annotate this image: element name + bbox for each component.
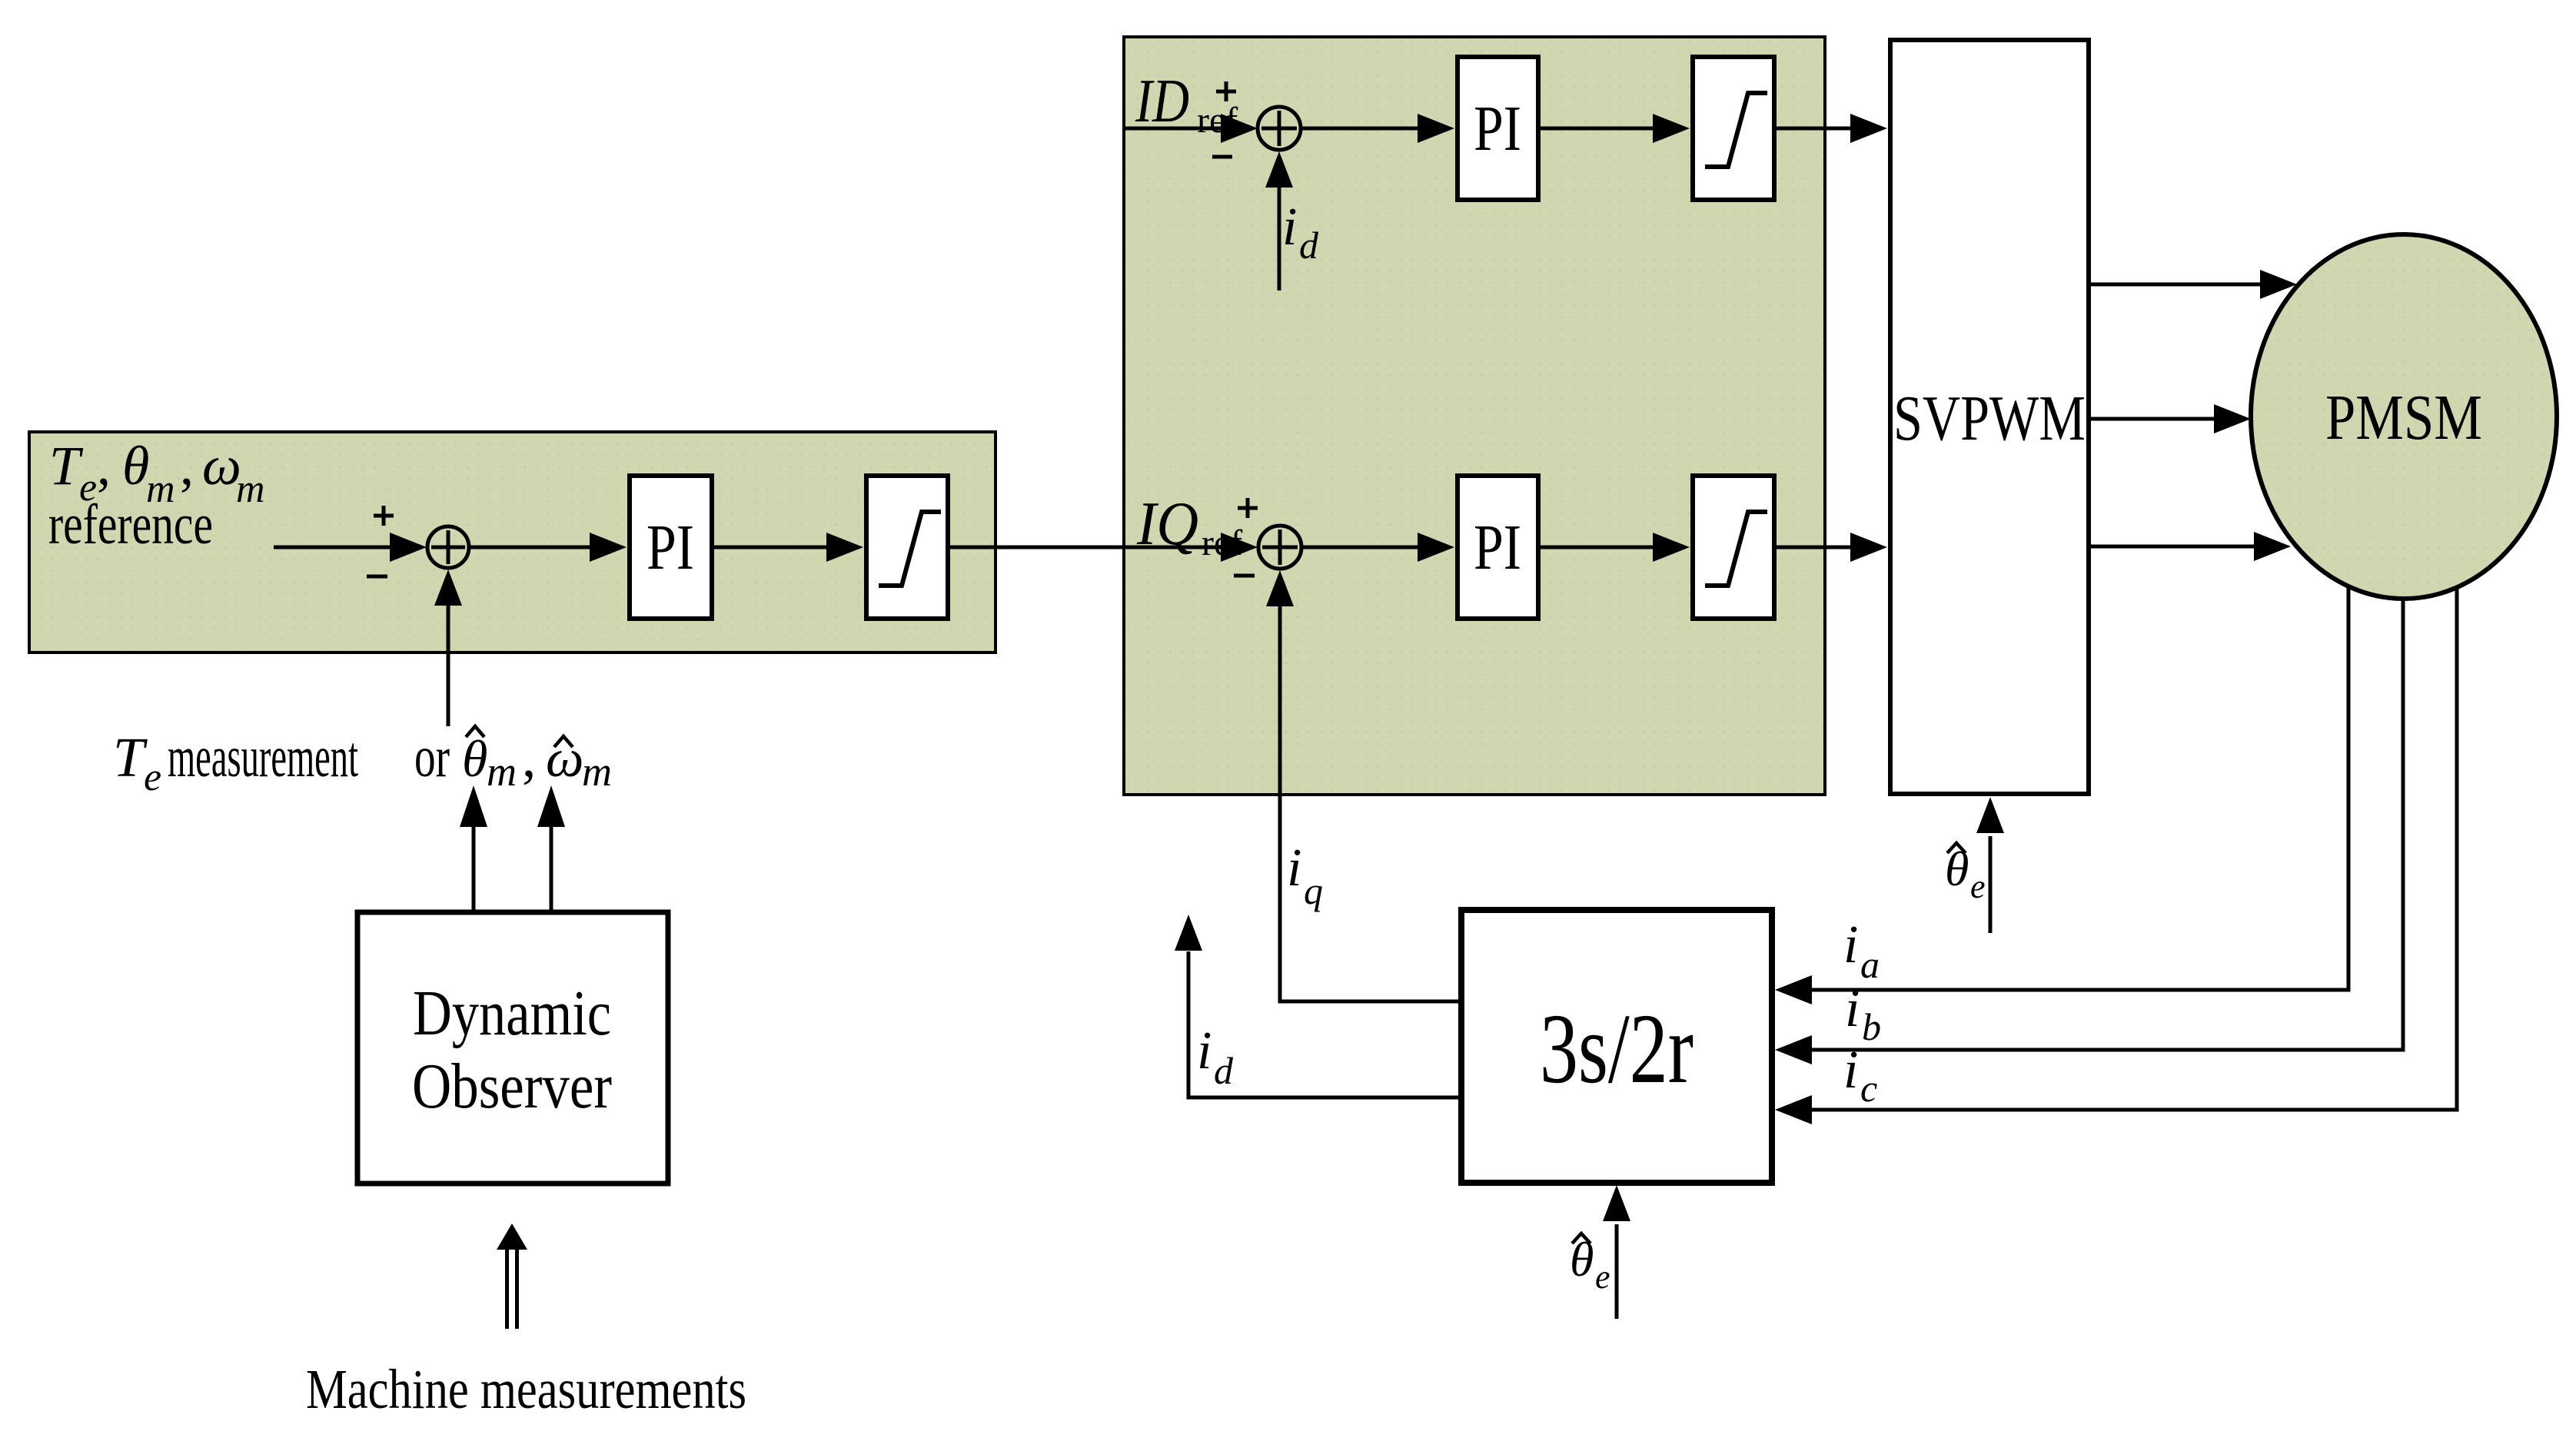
plus sign at S1	[374, 506, 394, 526]
shaded region: current loops	[1124, 37, 1825, 795]
saturation limiter SAT1	[866, 476, 948, 619]
summing junction S1	[427, 526, 469, 568]
wire ia from PMSM to 3s/2r	[1775, 588, 2348, 1004]
label Te, theta_m, omega_m	[49, 435, 265, 511]
minus sign at S3	[1234, 574, 1255, 578]
wire SAT2 to SVPWM	[1774, 114, 1887, 143]
svg-text:measurement: measurement	[168, 725, 358, 789]
PMSM machine	[2251, 234, 2557, 599]
svg-text:i: i	[1287, 838, 1301, 898]
label iq	[1287, 838, 1323, 912]
svg-text:e: e	[1970, 868, 1986, 905]
wire id from 3s/2r (output)	[1175, 915, 1461, 1097]
SVPWM block	[1890, 40, 2089, 794]
svg-text:T: T	[113, 726, 148, 789]
minus sign at S2	[1212, 155, 1232, 159]
svg-text:PI: PI	[646, 512, 694, 583]
wire SVPWM to PMSM (top)	[2089, 270, 2297, 299]
svg-text:θ: θ	[462, 729, 487, 788]
summing junction S2	[1258, 107, 1301, 150]
wire S3 to PI3	[1301, 533, 1454, 562]
wire PI3 to SAT3	[1538, 533, 1690, 562]
wire theta_e into 3s/2r	[1603, 1185, 1630, 1319]
label theta_e (3s/2r)	[1570, 1232, 1610, 1296]
svg-text:m: m	[236, 467, 265, 511]
wire IDref into S2	[1124, 114, 1258, 143]
plus sign at S2	[1216, 81, 1236, 101]
wire ic from PMSM to 3s/2r	[1775, 589, 2457, 1124]
svg-text:Dynamic: Dynamic	[413, 978, 611, 1049]
svg-text:m: m	[487, 749, 517, 795]
svg-text:c: c	[1860, 1067, 1877, 1110]
label ib	[1845, 979, 1881, 1048]
label ia	[1843, 915, 1880, 986]
summing junction S3	[1258, 526, 1301, 569]
wire theta_e into SVPWM	[1976, 797, 2004, 933]
wire PI1 to SAT1	[712, 533, 863, 562]
label IDref	[1135, 68, 1238, 141]
label theta_e (SVPWM)	[1945, 842, 1986, 905]
svg-text:i: i	[1282, 198, 1297, 257]
svg-text:i: i	[1845, 979, 1860, 1038]
svg-text:ref: ref	[1202, 523, 1242, 563]
svg-text:m: m	[582, 749, 612, 795]
wire SAT3 to SVPWM	[1774, 533, 1887, 562]
wire iq from 3s/2r up into S3	[1266, 570, 1461, 1001]
svg-text:or: or	[414, 725, 450, 789]
svg-text:,: ,	[522, 726, 536, 789]
svg-text:reference: reference	[48, 493, 213, 556]
PI controller PI1	[630, 476, 712, 619]
svg-text:a: a	[1860, 943, 1880, 986]
svg-text:d: d	[1214, 1049, 1234, 1092]
saturation limiter SAT2	[1693, 57, 1774, 200]
minus sign at S1	[367, 575, 387, 579]
wire SVPWM to PMSM (bottom)	[2089, 532, 2291, 561]
observer output arrow (right)	[537, 785, 565, 910]
PI controller PI2	[1458, 57, 1538, 200]
wire ib from PMSM to 3s/2r	[1775, 598, 2403, 1064]
svg-text:q: q	[1304, 869, 1323, 912]
svg-text:PI: PI	[1474, 93, 1521, 164]
feedback wire up into S1	[434, 569, 462, 726]
svg-text:SVPWM: SVPWM	[1893, 383, 2086, 454]
Dynamic Observer block	[357, 912, 668, 1184]
saturation limiter SAT3	[1693, 476, 1774, 619]
wire id feedback up into S2	[1265, 151, 1293, 291]
shaded region: speed/torque loop	[29, 432, 995, 652]
svg-text:i: i	[1197, 1021, 1212, 1081]
observer output arrow (left)	[460, 785, 487, 910]
svg-text:,: ,	[97, 435, 111, 496]
svg-text:3s/2r: 3s/2r	[1540, 994, 1694, 1104]
svg-text:i: i	[1843, 1041, 1858, 1100]
svg-text:e: e	[1595, 1258, 1610, 1296]
wire PI2 to SAT2	[1538, 114, 1690, 143]
svg-text:i: i	[1843, 915, 1858, 974]
svg-text:d: d	[1299, 224, 1319, 267]
wire S1 to PI1	[468, 533, 627, 562]
wire S2 to PI2	[1301, 114, 1454, 143]
svg-text:PMSM: PMSM	[2325, 382, 2482, 453]
svg-text:IQ: IQ	[1136, 490, 1198, 558]
label Te measurement or theta_m, omega_m	[113, 725, 612, 799]
plus sign at S3	[1238, 498, 1258, 518]
label ic	[1843, 1041, 1877, 1110]
label id (bottom)	[1197, 1021, 1234, 1092]
machine measurements double-line arrow	[497, 1223, 527, 1329]
svg-text:b: b	[1862, 1005, 1881, 1048]
wire SVPWM to PMSM (middle)	[2089, 404, 2251, 433]
wire SAT1 to summing junction S3	[948, 533, 1258, 562]
svg-text:PI: PI	[1474, 512, 1521, 583]
svg-text:Machine measurements: Machine measurements	[306, 1358, 746, 1420]
label IQref	[1136, 490, 1242, 563]
3s/2r block	[1461, 910, 1772, 1183]
svg-text:ID: ID	[1135, 68, 1189, 135]
label id (top)	[1282, 198, 1319, 267]
wire: reference input into S1	[274, 533, 427, 562]
svg-text:e: e	[144, 755, 161, 799]
PI controller PI3	[1458, 476, 1538, 619]
svg-text:Observer: Observer	[412, 1051, 612, 1122]
svg-text:,: ,	[180, 435, 194, 496]
